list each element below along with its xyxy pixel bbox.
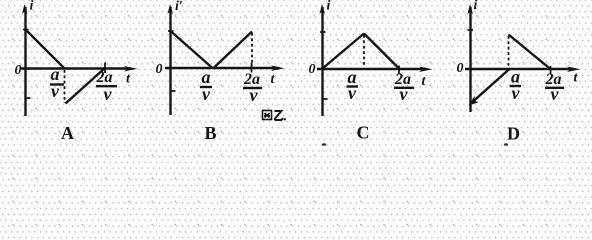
svg-text:i: i (474, 0, 478, 13)
B tick at +i0 on v-axis (168, 30, 174, 32)
A tick at +i0 on v-axis (23, 29, 29, 31)
svg-text:0: 0 (457, 61, 464, 76)
svg-text:A: A (61, 123, 74, 143)
C rising segment origin to peak at a/v (323, 34, 365, 69)
A vertical axis i (24, 7, 26, 116)
svg-text:v: v (51, 81, 60, 101)
A tick on h-axis at 2a/v (104, 63, 106, 74)
svg-text:v: v (512, 83, 521, 103)
svg-text:t: t (271, 72, 276, 87)
D tick at +i0 on v-axis (468, 29, 474, 31)
A horizontal axis t (20, 67, 131, 69)
C fraction a/v (347, 67, 359, 103)
C tick at +i0 on v-axis (320, 31, 326, 33)
D fraction 2a/v (545, 71, 565, 104)
B descending segment to V bottom at a/v (171, 31, 214, 69)
C dashed vertical at a/v (363, 35, 365, 67)
D fraction a/v (510, 67, 522, 104)
D arrowhead on rising segment lower end (469, 96, 479, 106)
svg-text:t: t (422, 74, 427, 89)
caption period (284, 118, 286, 120)
B dashed vertical at 2a/v (251, 33, 253, 66)
D h-axis arrowhead (567, 67, 581, 73)
scan speck below D axis (504, 143, 508, 146)
svg-text:t: t (574, 71, 579, 86)
svg-text:i′: i′ (175, 0, 183, 14)
svg-text:v: v (348, 83, 357, 103)
A dashed vertical at a/v (64, 70, 66, 103)
D vertical axis i (469, 7, 471, 112)
svg-text:i: i (30, 0, 34, 14)
C descending segment peak to 2a/v (364, 34, 400, 70)
svg-text:0: 0 (309, 62, 316, 77)
D descending segment peak to 2a/v (509, 35, 552, 70)
D dashed vertical at a/v (508, 36, 510, 67)
svg-text:D: D (507, 124, 520, 144)
A fraction 2a/v (96, 69, 118, 104)
D tick on h-axis at 2a/v (550, 66, 552, 74)
A tick on v-axis at -i0 level (26, 97, 31, 99)
svg-text:0: 0 (156, 62, 163, 77)
C tick on v-axis below axis (323, 98, 328, 100)
A descending segment (0,+i0) to (a/v,0) (26, 30, 65, 69)
A fraction a/v (50, 64, 64, 101)
D rising segment from below axis with arrow (474, 69, 511, 102)
C horizontal axis t (317, 68, 426, 70)
caption: CJK character tu (figure) (263, 111, 272, 120)
B fraction a/v (200, 67, 212, 104)
svg-text:t: t (126, 72, 131, 87)
D horizontal axis t (465, 68, 574, 70)
B horizontal axis t (165, 67, 278, 69)
svg-text:v: v (400, 84, 409, 104)
B vertical axis i (169, 7, 171, 115)
B tick on h-axis at 2a/v (251, 63, 253, 73)
scan speck below C axis (322, 143, 326, 146)
svg-text:i: i (327, 0, 331, 14)
svg-text:v: v (202, 84, 211, 104)
A rising segment (a/v,-i0) to (2a/v,0) (66, 68, 106, 104)
svg-text:v: v (551, 84, 560, 104)
C fraction 2a/v (394, 71, 414, 104)
svg-text:0: 0 (15, 63, 22, 78)
B v-axis arrowhead (168, 4, 174, 14)
C v-axis arrowhead (320, 4, 326, 14)
B rising segment a/v to 2a/v (213, 32, 252, 69)
B h-axis arrowhead (271, 66, 285, 72)
C vertical axis i (321, 7, 323, 116)
C h-axis arrowhead (419, 67, 433, 73)
D v-axis arrowhead (468, 4, 474, 14)
svg-text:B: B (205, 123, 217, 143)
caption: CJK character yi (second) (275, 111, 283, 120)
A v-axis arrowhead (22, 4, 28, 14)
svg-text:C: C (357, 123, 370, 143)
B fraction 2a/v (243, 71, 262, 105)
C tick on h-axis at 2a/v (398, 66, 400, 74)
A h-axis arrowhead (124, 66, 138, 72)
B tick on v-axis below axis (171, 90, 176, 92)
svg-text:v: v (104, 84, 113, 104)
svg-text:v: v (250, 85, 259, 105)
